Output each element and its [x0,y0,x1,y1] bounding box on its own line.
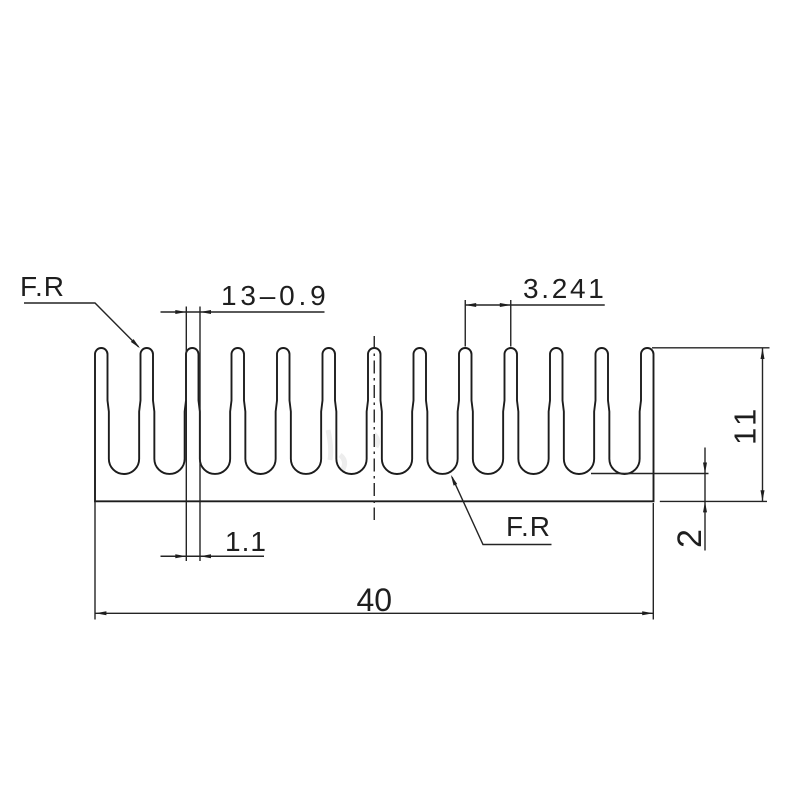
arrowhead left [95,611,106,615]
svg-text:2: 2 [671,529,709,548]
leader arrowhead [451,475,457,486]
dimension 3.241 (fin pitch) [465,273,606,347]
svg-text:F.R: F.R [20,271,65,302]
dimension 13-0.9 (fin thickness) [161,280,330,561]
leader label F.R (slot root radius, lower middle) [451,475,552,545]
extension line left [185,307,187,562]
arrowhead left [175,310,186,314]
svg-text:13–0.9: 13–0.9 [221,280,329,311]
arrowhead top [761,348,765,359]
heatsink extrusion profile outline (13 fins) [95,348,654,501]
leader line [452,477,552,545]
dimension 40 (overall width) [95,501,653,619]
dimension 11 (overall height) [652,348,770,502]
extension line right [510,300,512,347]
svg-text:11: 11 [728,405,763,445]
faint watermark [328,430,378,471]
dimension line [465,304,605,306]
arrowhead right [500,303,511,307]
svg-text:1.1: 1.1 [225,526,267,557]
arrowhead left [465,303,476,307]
extension line bottom [660,500,767,502]
arrowhead top (outside, pointing down) [703,463,707,474]
dimension 1.1 (fin root thickness) [161,526,267,558]
leader line [24,303,139,347]
extension line right [652,503,654,620]
arrowhead right [200,310,211,314]
dimension 2 (base thickness) [591,448,709,551]
leader label F.R (fin tip radius, upper left) [20,271,140,348]
dimension line [704,448,706,551]
extension line top [652,347,770,349]
arrowhead right [642,611,653,615]
arrowhead right [200,554,211,558]
dimension line [161,311,325,313]
centerline (dash-dot) [373,336,375,520]
svg-text:3.241: 3.241 [523,273,607,304]
extension line right [199,307,201,562]
extension line left [94,501,96,619]
arrowhead bottom [761,490,765,501]
svg-text:F.R: F.R [506,511,551,542]
dimension line [161,555,265,557]
leader arrowhead [131,339,140,348]
arrowhead left [175,554,186,558]
extension line left [464,300,466,347]
dimension line [762,348,764,501]
extension line top [591,473,709,475]
arrowhead bottom (outside, pointing up) [703,501,707,512]
dimension line [95,612,653,614]
